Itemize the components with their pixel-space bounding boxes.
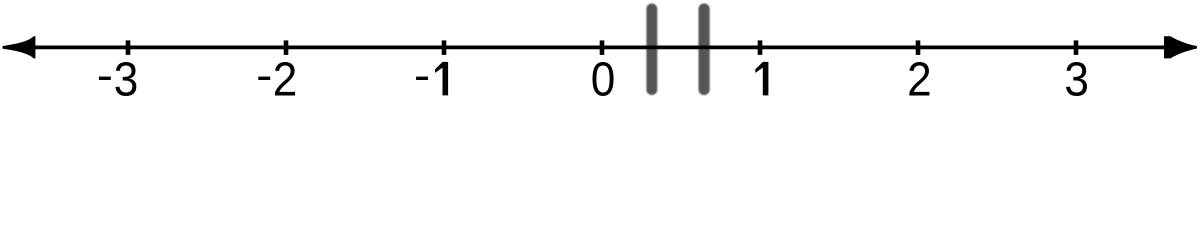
svg-text:0: 0	[591, 52, 616, 99]
svg-text:2: 2	[907, 52, 932, 99]
label 1 digit 1	[755, 62, 768, 96]
tick 2	[916, 40, 921, 55]
right arrowhead	[1164, 36, 1197, 58]
left arrowhead	[3, 36, 36, 58]
tick -2	[284, 40, 289, 55]
tick -1	[442, 40, 447, 55]
number line axis	[25, 46, 1175, 50]
label -2 minus sign	[258, 77, 270, 80]
tick -3	[126, 40, 131, 55]
label -1 minus sign	[416, 77, 428, 80]
tick 0	[600, 40, 605, 55]
tick 1	[758, 40, 763, 55]
svg-text:3: 3	[114, 52, 139, 99]
svg-text:3: 3	[1064, 52, 1089, 99]
interval bar at ~1/3	[646, 4, 657, 96]
tick 3	[1074, 40, 1079, 55]
label -3 minus sign	[99, 77, 111, 80]
interval bar at ~2/3	[699, 4, 710, 96]
label -1 digit 1	[435, 62, 448, 96]
svg-text:2: 2	[273, 52, 298, 99]
